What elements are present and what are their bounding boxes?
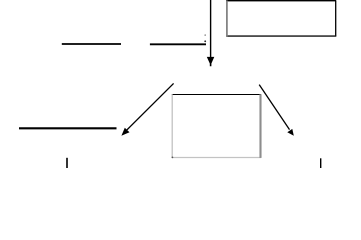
wire: horizontal segment 1	[62, 43, 121, 45]
wire: bottom vertical tick right	[320, 158, 322, 168]
box: top-right rectangle	[226, 0, 336, 36]
wire: vertical arrow shaft (top center)	[210, 0, 212, 59]
wire: thick horizontal line (bottom-left)	[19, 127, 117, 129]
wire: horizontal segment 2	[150, 43, 206, 45]
dot upper (colon mark)	[204, 34, 206, 36]
wire: left diagonal arrow shaft	[127, 83, 174, 130]
arrowhead of vertical arrow	[207, 57, 215, 66]
dot lower (colon mark)	[204, 40, 206, 42]
box: center rectangle	[172, 94, 262, 158]
arrowhead of left diagonal arrow	[121, 128, 129, 136]
wire: bottom vertical tick left	[66, 158, 68, 168]
arrowhead of right diagonal arrow	[287, 129, 294, 136]
wire: right diagonal arrow shaft	[259, 85, 289, 130]
